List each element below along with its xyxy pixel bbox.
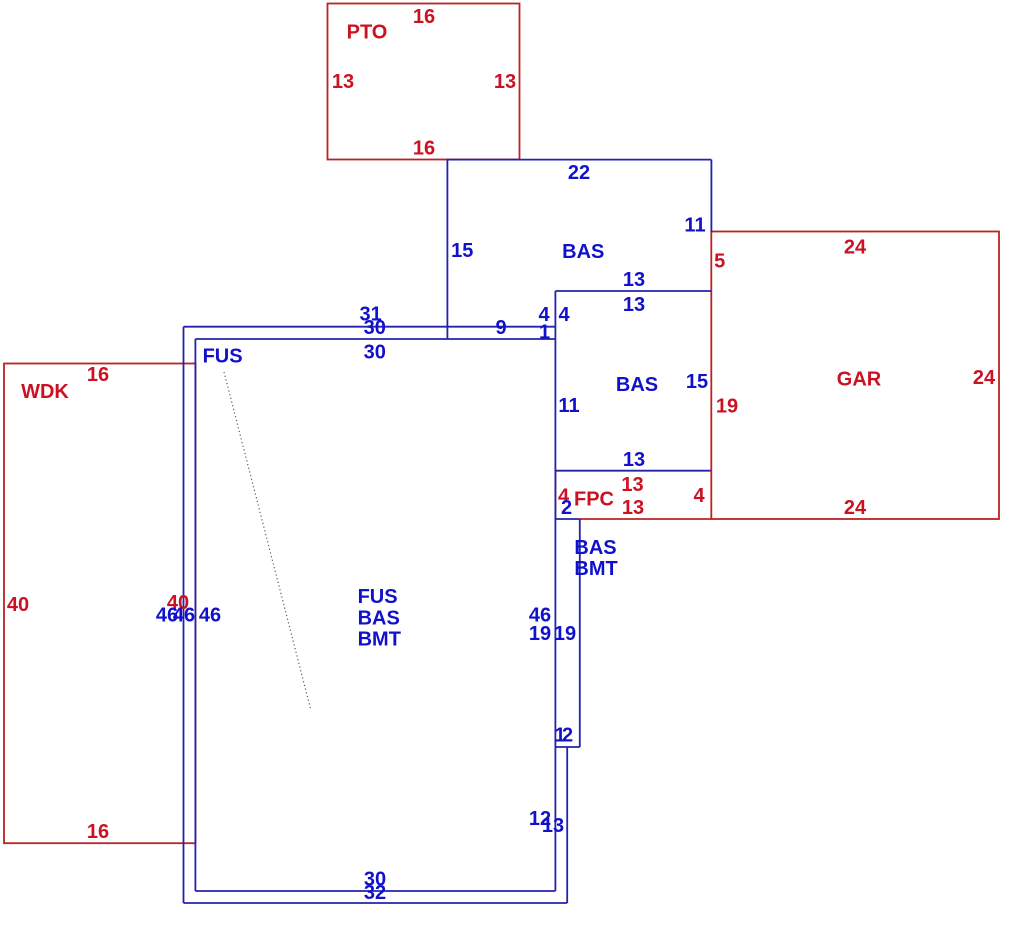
svg-text:9: 9 (495, 317, 506, 339)
svg-text:30: 30 (364, 317, 386, 339)
svg-text:19: 19 (716, 396, 738, 418)
svg-text:24: 24 (973, 367, 996, 389)
svg-text:32: 32 (364, 882, 386, 904)
svg-text:46: 46 (173, 605, 195, 627)
svg-text:GAR: GAR (837, 368, 882, 390)
svg-text:13: 13 (621, 474, 643, 496)
svg-text:15: 15 (451, 240, 473, 262)
svg-text:PTO: PTO (347, 22, 388, 44)
svg-text:22: 22 (568, 162, 590, 184)
svg-text:30: 30 (364, 341, 386, 363)
svg-text:2: 2 (561, 497, 572, 519)
svg-text:BAS: BAS (562, 241, 604, 263)
svg-text:46: 46 (199, 605, 221, 627)
svg-text:BAS: BAS (574, 537, 616, 559)
svg-text:19: 19 (554, 623, 576, 645)
svg-text:16: 16 (87, 364, 109, 386)
svg-text:19: 19 (529, 623, 551, 645)
svg-text:FUS: FUS (358, 586, 398, 608)
svg-text:BMT: BMT (574, 558, 617, 580)
svg-text:1: 1 (539, 322, 550, 344)
svg-text:13: 13 (494, 71, 516, 93)
svg-text:5: 5 (714, 251, 725, 273)
svg-text:11: 11 (684, 215, 705, 237)
svg-text:4: 4 (558, 304, 570, 326)
svg-text:13: 13 (332, 71, 354, 93)
svg-text:11: 11 (558, 395, 579, 417)
svg-text:16: 16 (413, 138, 435, 160)
svg-text:WDK: WDK (21, 381, 69, 403)
svg-text:40: 40 (7, 594, 29, 616)
svg-text:13: 13 (542, 815, 564, 837)
svg-text:BMT: BMT (358, 629, 401, 651)
svg-text:2: 2 (562, 725, 573, 747)
svg-text:16: 16 (413, 6, 435, 28)
svg-text:24: 24 (844, 237, 867, 259)
svg-text:BAS: BAS (616, 374, 658, 396)
svg-text:FUS: FUS (203, 345, 243, 367)
svg-text:BAS: BAS (358, 608, 400, 630)
svg-text:13: 13 (623, 294, 645, 316)
svg-text:FPC: FPC (574, 489, 614, 511)
svg-text:15: 15 (686, 371, 708, 393)
svg-text:24: 24 (844, 497, 867, 519)
svg-text:16: 16 (87, 821, 109, 843)
svg-text:13: 13 (623, 449, 645, 471)
svg-text:13: 13 (622, 497, 644, 519)
svg-text:4: 4 (693, 485, 705, 507)
svg-text:13: 13 (623, 269, 645, 291)
